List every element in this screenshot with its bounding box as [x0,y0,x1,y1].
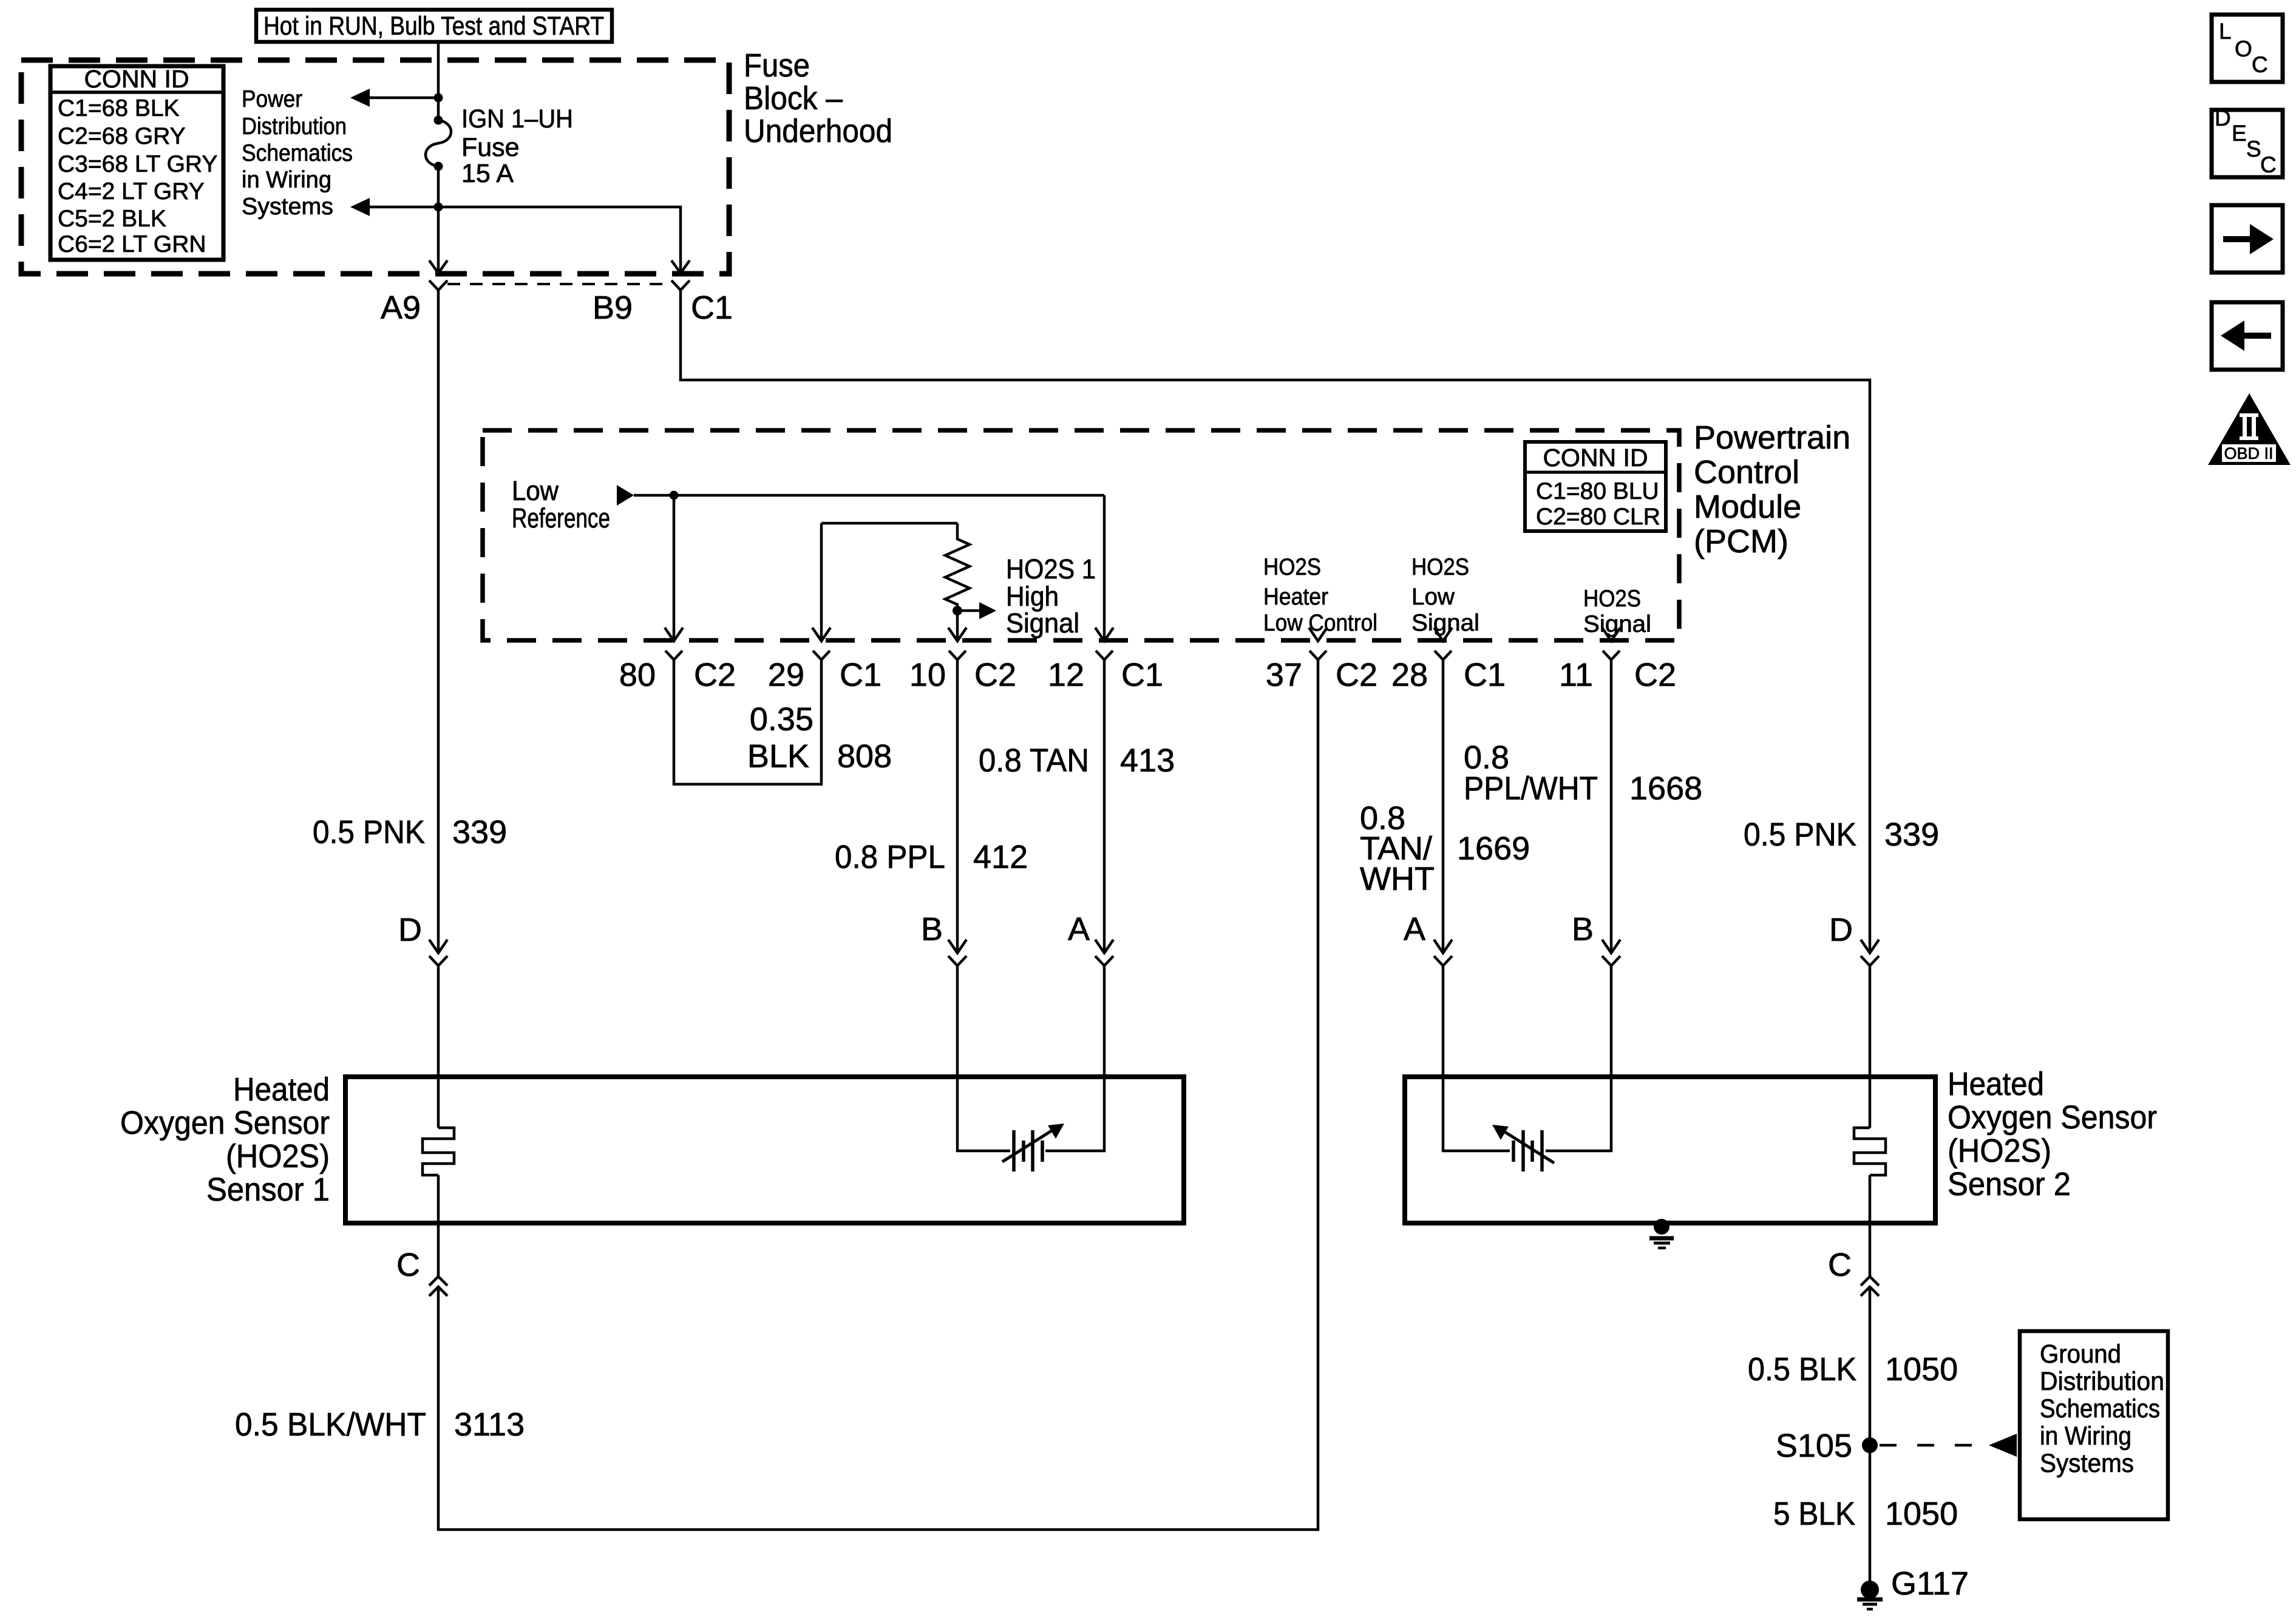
junction: dot power distribution tap (upper) [434,93,443,103]
arrow: low reference source [617,485,634,506]
connector B (sensor 2): arrow [1602,940,1620,953]
svg-text:S: S [2246,137,2261,161]
svg-text:0.35: 0.35 [750,701,813,737]
label: 0.5 PNK | 339 (left) [313,814,507,850]
svg-text:C2: C2 [974,657,1016,693]
svg-text:Module: Module [1694,489,1801,525]
wire: low reference drop to pin 12 [1103,495,1106,641]
svg-text:0.5 BLK: 0.5 BLK [1748,1351,1856,1388]
svg-text:CONN ID: CONN ID [84,65,189,93]
svg-text:11: 11 [1559,657,1593,693]
arrow: wire end at A9 terminal [429,260,447,273]
svg-text:Signal: Signal [1411,610,1479,636]
connector D (left): arrow [429,940,447,953]
splice S105 [1862,1437,1878,1453]
svg-text:Sensor 1: Sensor 1 [206,1171,330,1208]
label: 0.8 TAN/ WHT | 1669 [1360,800,1530,897]
svg-text:C: C [1828,1247,1852,1283]
svg-text:Distribution: Distribution [242,114,347,140]
pin 10 C2: arrow and fork [948,628,966,660]
svg-text:S105: S105 [1776,1428,1852,1464]
svg-text:Low: Low [1411,584,1455,610]
svg-text:0.5 BLK/WHT: 0.5 BLK/WHT [235,1406,426,1443]
junction: dot low reference to pin 80 [670,491,679,500]
svg-text:C5=2 BLK: C5=2 BLK [58,206,166,232]
svg-text:Reference: Reference [512,503,610,534]
svg-text:HO2S: HO2S [1411,554,1469,580]
label: 0.8 PPL | 412 [835,839,1028,875]
pin 80 C2 labels [619,657,736,693]
label: Low Reference [512,475,610,534]
svg-text:A: A [1068,911,1090,947]
svg-text:WHT: WHT [1360,861,1435,897]
wire: heater low side down to C (sensor 2) [1869,1175,1872,1276]
icon: OBD II triangle [2208,393,2291,465]
svg-text:L: L [2219,19,2232,44]
svg-text:Underhood: Underhood [744,113,892,149]
pin 29 C1: arrow and fork [812,628,830,660]
pin 12 C1 labels [1048,657,1163,693]
svg-text:C3=68 LT GRY: C3=68 LT GRY [58,151,217,177]
svg-text:IGN 1–UH: IGN 1–UH [461,104,573,134]
svg-text:Control: Control [1694,454,1799,490]
ground junction dot (sensor 2 case) [1654,1219,1669,1235]
pin 28 C1: arrow and fork [1434,628,1452,660]
wire: B into sensor 2 element [1546,966,1611,1151]
svg-text:C: C [396,1247,420,1283]
pin 11 C2: arrow and fork [1602,628,1620,660]
svg-text:D: D [1829,912,1853,948]
label: 0.8 PPL/WHT | 1668 [1464,739,1702,807]
wire: ignition feed from title box into fuse block [437,42,440,120]
ground symbol (sensor 2 case) [1649,1238,1674,1248]
ground G117 [1857,1581,1883,1609]
svg-text:A9: A9 [381,290,421,326]
svg-text:C1: C1 [840,657,881,693]
connector A (sensor 1): arrow [1095,940,1113,953]
ground distribution schematics box [2020,1331,2168,1519]
arrow: to power distribution schematics (upper) [350,89,438,107]
icon: LOC box [2212,15,2283,82]
pin 11 C2 labels [1559,657,1676,693]
junction: dot power distribution tap (lower) [434,203,443,212]
svg-text:B: B [921,911,943,947]
svg-text:G117: G117 [1891,1565,1969,1602]
svg-text:C1=80 BLU: C1=80 BLU [1536,478,1659,504]
sensing element (variable cell) sensor 1 [1002,1124,1064,1171]
svg-text:C2: C2 [694,657,736,693]
svg-text:1050: 1050 [1885,1351,1958,1388]
label: HO2S Signal [1583,586,1651,637]
icon: back arrow box [2212,302,2283,370]
svg-text:Heater: Heater [1263,584,1328,610]
svg-text:(PCM): (PCM) [1694,523,1788,560]
heated oxygen sensor 1 box [345,1077,1184,1223]
svg-text:1669: 1669 [1457,830,1530,867]
label: 0.35 BLK | 808 [747,701,892,775]
svg-text:E: E [2232,121,2247,146]
svg-text:5 BLK: 5 BLK [1773,1496,1855,1532]
title box: Hot in RUN, Bulb Test and START [256,10,612,42]
svg-text:0.8 PPL: 0.8 PPL [835,839,945,875]
svg-text:(HO2S): (HO2S) [1948,1133,2051,1169]
fuse block - underhood (dashed enclosure) [21,60,729,274]
connector A (sensor 2): arrow [1434,940,1452,953]
label: 0.5 PNK | 339 (right) [1744,816,1939,853]
svg-text:Fuse: Fuse [744,47,810,84]
svg-text:28: 28 [1391,657,1428,693]
wire: 0.8 TAN 413 pin 12 to sensor 1 A [1103,660,1106,953]
svg-text:D: D [2215,106,2231,131]
svg-text:339: 339 [1884,816,1939,853]
heated oxygen sensor 2 box [1405,1077,1935,1223]
pin 29 C1 labels [768,657,881,693]
svg-text:29: 29 [768,657,804,693]
svg-text:C2=68 GRY: C2=68 GRY [58,123,186,149]
svg-text:C: C [2252,52,2268,77]
sensing element (variable cell) sensor 2 [1492,1125,1554,1171]
label: IGN 1-UH Fuse 15 A [461,104,573,188]
svg-text:Low Control: Low Control [1263,610,1377,636]
wire: low reference bus (PCM internal) [634,494,1104,497]
icon: DESC box [2212,106,2283,177]
pin 10 C2 labels [909,657,1016,693]
pin 37 C2: arrow and fork [1309,628,1327,660]
wire: A into sensor 1 element [1045,966,1104,1151]
pin 12 C1: arrow and fork [1095,628,1113,660]
arrow: to ground distribution schematics [1989,1434,2017,1457]
svg-text:Sensor 2: Sensor 2 [1948,1166,2071,1202]
svg-text:CONN ID: CONN ID [1543,444,1648,472]
svg-text:413: 413 [1120,742,1175,779]
wire: fused feed across to B9 [438,207,681,272]
heater element (sensor 2) [1854,1128,1886,1175]
wire: dashed reference to ground distribution [1880,1444,1984,1447]
svg-text:412: 412 [973,839,1028,875]
svg-text:in Wiring: in Wiring [2040,1422,2131,1451]
label: HO2S Heater Low Control [1263,554,1377,636]
svg-text:Hot in RUN, Bulb Test and STAR: Hot in RUN, Bulb Test and START [263,12,604,41]
svg-text:Schematics: Schematics [2040,1394,2160,1423]
label: Powertrain Control Module (PCM) [1694,419,1850,560]
connector C (sensor 2): fork [1861,1276,1879,1286]
svg-text:Oxygen Sensor: Oxygen Sensor [120,1105,330,1141]
svg-text:Systems: Systems [242,194,333,220]
svg-text:HO2S: HO2S [1263,554,1321,580]
powertrain control module PCM (dashed enclosure) [483,430,1679,640]
icon: forward arrow box [2212,205,2283,273]
arrow: HO2S 1 high signal [962,602,996,619]
connector fork B9 [671,280,690,290]
wire: fuse output down to A9 [437,166,440,272]
svg-text:15 A: 15 A [461,159,514,188]
label: Fuse Block - Underhood [744,47,892,149]
svg-text:BLK: BLK [747,738,809,775]
svg-text:37: 37 [1266,657,1302,693]
label: 5 BLK | 1050 [1773,1496,1958,1532]
svg-text:Heated: Heated [1948,1066,2044,1102]
connector D (right): arrow [1861,940,1879,953]
connector fork A9 [429,280,447,290]
svg-text:1668: 1668 [1629,770,1702,807]
svg-text:80: 80 [619,657,656,693]
label: HO2S 1 High Signal [1006,554,1096,639]
svg-text:339: 339 [452,814,507,850]
wire: D into sensor 2 heater [1869,966,1872,1128]
wire: 0.8 TAN/WHT 1669 pin 28 to sensor 2 A [1442,660,1445,953]
wire: 0.8 PPL 412 pin 10 to sensor 1 B [956,660,959,953]
svg-text:(HO2S): (HO2S) [226,1138,330,1175]
wire: A into sensor 2 element [1443,966,1510,1151]
pin 37 C2 labels [1266,657,1377,693]
resistor: HO2S 1 high signal bias [945,523,970,641]
svg-text:C1: C1 [691,290,733,326]
svg-text:Powertrain: Powertrain [1694,419,1850,456]
svg-text:3113: 3113 [454,1406,525,1443]
svg-text:0.5 PNK: 0.5 PNK [1744,816,1856,853]
svg-text:B9: B9 [593,290,633,326]
svg-text:Block –: Block – [744,80,843,117]
wire: 0.5 PNK 339 right (B9 across and down to HO2S sensor 2 D) [681,290,1870,953]
connector B (sensor 1): fork [948,956,966,966]
svg-text:O: O [2235,36,2252,61]
wire: 0.5 PNK 339 left (A9 down to HO2S sensor 1 D) [437,290,440,953]
connector table CONN ID (fuse block) [50,65,223,260]
svg-text:C1=68 BLK: C1=68 BLK [58,95,180,121]
wire: 0.8 PPL/WHT 1668 pin 11 to sensor 2 B [1610,660,1613,953]
svg-text:C1: C1 [1121,657,1163,693]
wire: B into sensor 1 element [957,966,1010,1151]
connector table CONN ID (PCM) [1525,442,1666,531]
svg-text:Power: Power [242,86,302,112]
svg-text:Schematics: Schematics [242,140,353,166]
label: HO2S Low Signal [1411,554,1479,636]
svg-text:D: D [398,912,422,948]
pin 28 C1 labels [1391,657,1506,693]
svg-text:0.5 PNK: 0.5 PNK [313,814,425,850]
svg-text:10: 10 [909,657,946,693]
connector C (sensor 1): arrow [429,1287,447,1296]
svg-text:B: B [1572,911,1594,947]
label: 0.5 BLK/WHT | 3113 [235,1406,525,1443]
svg-text:C6=2 LT GRN: C6=2 LT GRN [58,231,206,257]
wire: heater low side down to C (sensor 1) [437,1175,440,1276]
connector D (left): fork [429,956,447,966]
connector C (sensor 2): arrow [1861,1287,1879,1296]
connector A (sensor 1): fork [1095,956,1113,966]
svg-text:OBD II: OBD II [2224,444,2273,463]
svg-text:Low: Low [512,475,559,506]
svg-text:HO2S: HO2S [1583,586,1641,612]
junction: dot HO2S 1 high signal tap [953,606,962,615]
svg-text:Signal: Signal [1006,608,1079,639]
svg-text:C: C [2260,152,2277,177]
connector C (sensor 1): fork [429,1276,447,1286]
wire: D into sensor 1 heater [437,966,440,1128]
wire: 0.5 BLK 1050 down to S105 [1869,1287,1872,1590]
svg-text:808: 808 [837,738,892,775]
label: Heated Oxygen Sensor (HO2S) Sensor 1 [120,1071,330,1208]
svg-text:C1: C1 [1464,657,1506,693]
label: Heated Oxygen Sensor (HO2S) Sensor 2 [1948,1066,2157,1202]
svg-text:C2=80 CLR: C2=80 CLR [1536,504,1660,530]
svg-text:1050: 1050 [1885,1496,1958,1532]
wire: low reference drop to pin 80 [673,495,676,641]
svg-text:Heated: Heated [233,1071,330,1108]
connector D (right): fork [1861,956,1879,966]
arrow: to power distribution schematics (lower) [350,198,438,216]
svg-text:C2: C2 [1634,657,1676,693]
label: 0.8 TAN | 413 [979,742,1175,779]
svg-text:Ground: Ground [2040,1340,2121,1369]
svg-text:Systems: Systems [2040,1449,2134,1478]
arrow: wire end at B9 terminal [671,260,690,273]
svg-text:PPL/WHT: PPL/WHT [1464,770,1598,807]
svg-text:Distribution: Distribution [2040,1367,2164,1396]
heater element (sensor 1) [423,1128,454,1175]
connector B (sensor 2): fork [1602,956,1620,966]
svg-text:C4=2 LT GRY: C4=2 LT GRY [58,178,205,205]
connector mating line (dashed) A9-B9 [447,283,671,285]
connector B (sensor 1): arrow [948,940,966,953]
svg-text:Fuse: Fuse [461,133,520,162]
svg-text:HO2S 1: HO2S 1 [1006,554,1096,585]
svg-text:12: 12 [1048,657,1084,693]
fuse IGN 1-UH 15 A [426,116,451,171]
svg-text:0.8 TAN: 0.8 TAN [979,742,1089,779]
wire: PCM internal bridge pin 29 to resistor [821,523,957,641]
pin 80 C2: arrow and fork [665,628,683,660]
label: Power Distribution Schematics in Wiring Systems [242,86,353,220]
wire: 0.5 BLK/WHT 3113 return to PCM pin 37 [438,660,1318,1530]
svg-text:in Wiring: in Wiring [242,167,331,193]
svg-text:Oxygen Sensor: Oxygen Sensor [1948,1099,2157,1136]
connector A (sensor 2): fork [1434,956,1452,966]
svg-text:A: A [1404,911,1425,947]
wire: 0.35 BLK 808 loop pin 80 to pin 29 [674,660,821,784]
label: 0.5 BLK | 1050 [1748,1351,1958,1388]
svg-text:C2: C2 [1336,657,1377,693]
